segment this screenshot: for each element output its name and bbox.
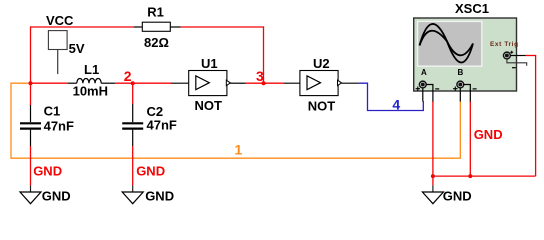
wire node1 to L1 <box>31 82 68 84</box>
ground symbol under scope rail <box>432 185 434 192</box>
svg-text:NOT: NOT <box>195 98 223 113</box>
oscilloscope A plus mark <box>416 87 420 91</box>
op U1 NOT gate output pin <box>230 82 246 84</box>
svg-text:VCC: VCC <box>46 13 74 28</box>
op U1 NOT gate output arrow <box>226 80 230 85</box>
svg-text:1: 1 <box>235 142 243 158</box>
oscilloscope Ext Trig terminal <box>504 52 511 59</box>
wire top-left horizontal <box>31 26 134 28</box>
oscilloscope B+ pin stub <box>459 88 461 102</box>
svg-text:5V: 5V <box>69 41 85 56</box>
svg-text:XSC1: XSC1 <box>455 1 489 16</box>
op U1 NOT gate triangle <box>196 76 210 90</box>
junction ground rail A <box>431 174 435 178</box>
oscilloscope trace small sine <box>420 31 474 56</box>
oscilloscope XSC1 screen <box>418 21 482 66</box>
svg-text:U2: U2 <box>313 56 330 71</box>
svg-text:GND: GND <box>136 164 165 179</box>
junction ground rail B <box>468 174 472 178</box>
svg-text:GND: GND <box>33 164 62 179</box>
wire ext trig horizontal <box>526 55 536 57</box>
svg-text:3: 3 <box>256 68 264 84</box>
op U2 NOT gate output arrow <box>338 80 342 85</box>
svg-text:L1: L1 <box>84 62 99 77</box>
svg-text:U1: U1 <box>201 56 218 71</box>
oscilloscope A+ pin stub <box>422 88 424 102</box>
wire top-right horizontal <box>181 26 264 28</box>
oscilloscope XSC1 body <box>414 18 517 91</box>
svg-text:R1: R1 <box>147 5 164 20</box>
junction node 3 <box>262 81 266 85</box>
svg-text:GND: GND <box>42 189 71 204</box>
wire node2 to U1 input <box>133 82 171 84</box>
resistor R1 body <box>142 22 170 31</box>
wire scope A- down to ground rail <box>432 101 434 176</box>
svg-text:C1: C1 <box>44 104 61 119</box>
svg-text:Ext Trig: Ext Trig <box>490 41 519 48</box>
op U2 NOT gate body <box>300 71 338 96</box>
oscilloscope B- pin stub <box>464 85 471 102</box>
svg-text:47nF: 47nF <box>44 118 74 133</box>
svg-text:B: B <box>458 68 464 77</box>
wire net4 blue: U2 output to scope A+ <box>359 83 424 110</box>
junction node 2 <box>131 81 135 85</box>
op U1 NOT gate input pin <box>171 82 189 84</box>
wire right vertical ext trig to rail <box>535 55 537 176</box>
oscilloscope terminal B <box>457 81 464 88</box>
oscilloscope Ext Trig + pin stub <box>510 55 525 57</box>
svg-text:4: 4 <box>392 96 400 112</box>
wire C1 bottom to ground <box>30 146 32 185</box>
op U2 NOT gate input pin <box>284 82 300 84</box>
oscilloscope A- pin stub <box>426 85 433 102</box>
ground symbol under C2 <box>132 185 134 192</box>
wire left vertical <box>30 26 32 83</box>
oscilloscope Ext Trig minus mark <box>512 67 516 69</box>
wire rail stub to right ground <box>432 176 434 185</box>
capacitor C1 plates <box>20 123 41 128</box>
inductor L1 leads <box>68 82 116 84</box>
oscilloscope Ext Trig - pin <box>507 59 527 66</box>
wire node3 vertical <box>263 26 265 83</box>
VCC pin stem <box>57 50 59 75</box>
oscilloscope terminal A <box>419 81 426 88</box>
svg-text:GND: GND <box>474 127 503 142</box>
op U2 NOT gate triangle <box>307 76 321 90</box>
oscilloscope Ext Trig plus mark <box>510 51 513 54</box>
wire ground rail horizontal <box>433 175 536 177</box>
wire node2 down to C2 <box>132 83 134 104</box>
svg-text:2: 2 <box>124 68 132 84</box>
op U2 NOT gate output pin <box>342 82 359 84</box>
oscilloscope B plus mark <box>453 87 457 91</box>
wire U1 output to U2 input <box>246 82 284 84</box>
capacitor C2 pins <box>132 104 134 146</box>
ground symbol under C1 <box>30 185 32 192</box>
wire net: top red loop and main row segments <box>31 26 536 185</box>
svg-text:10mH: 10mH <box>73 84 108 99</box>
wire C2 bottom to ground <box>132 146 134 185</box>
inductor L1 coil <box>77 78 101 83</box>
oscilloscope trace large sine <box>420 24 474 63</box>
oscilloscope B minus mark <box>473 88 477 90</box>
svg-text:GND: GND <box>443 189 472 204</box>
junction node 1 <box>29 81 33 85</box>
wire L1 to node2 <box>115 82 133 84</box>
wire node1 down to C1 <box>30 83 32 105</box>
VCC power symbol box <box>48 31 67 50</box>
svg-text:47nF: 47nF <box>147 118 177 133</box>
wire scope B- down to ground rail <box>469 101 471 176</box>
capacitor C1 pins <box>30 105 32 146</box>
svg-text:82Ω: 82Ω <box>144 35 169 50</box>
svg-text:GND: GND <box>145 189 174 204</box>
capacitor C2 plates <box>122 123 143 128</box>
op U1 NOT gate body <box>189 71 227 96</box>
resistor R1 leads <box>134 26 181 28</box>
svg-text:A: A <box>421 68 427 77</box>
svg-text:NOT: NOT <box>308 99 336 114</box>
wire net1 orange: scope B+ down, across bottom, up left side to node 1 <box>11 83 460 158</box>
oscilloscope A minus mark <box>435 88 439 90</box>
